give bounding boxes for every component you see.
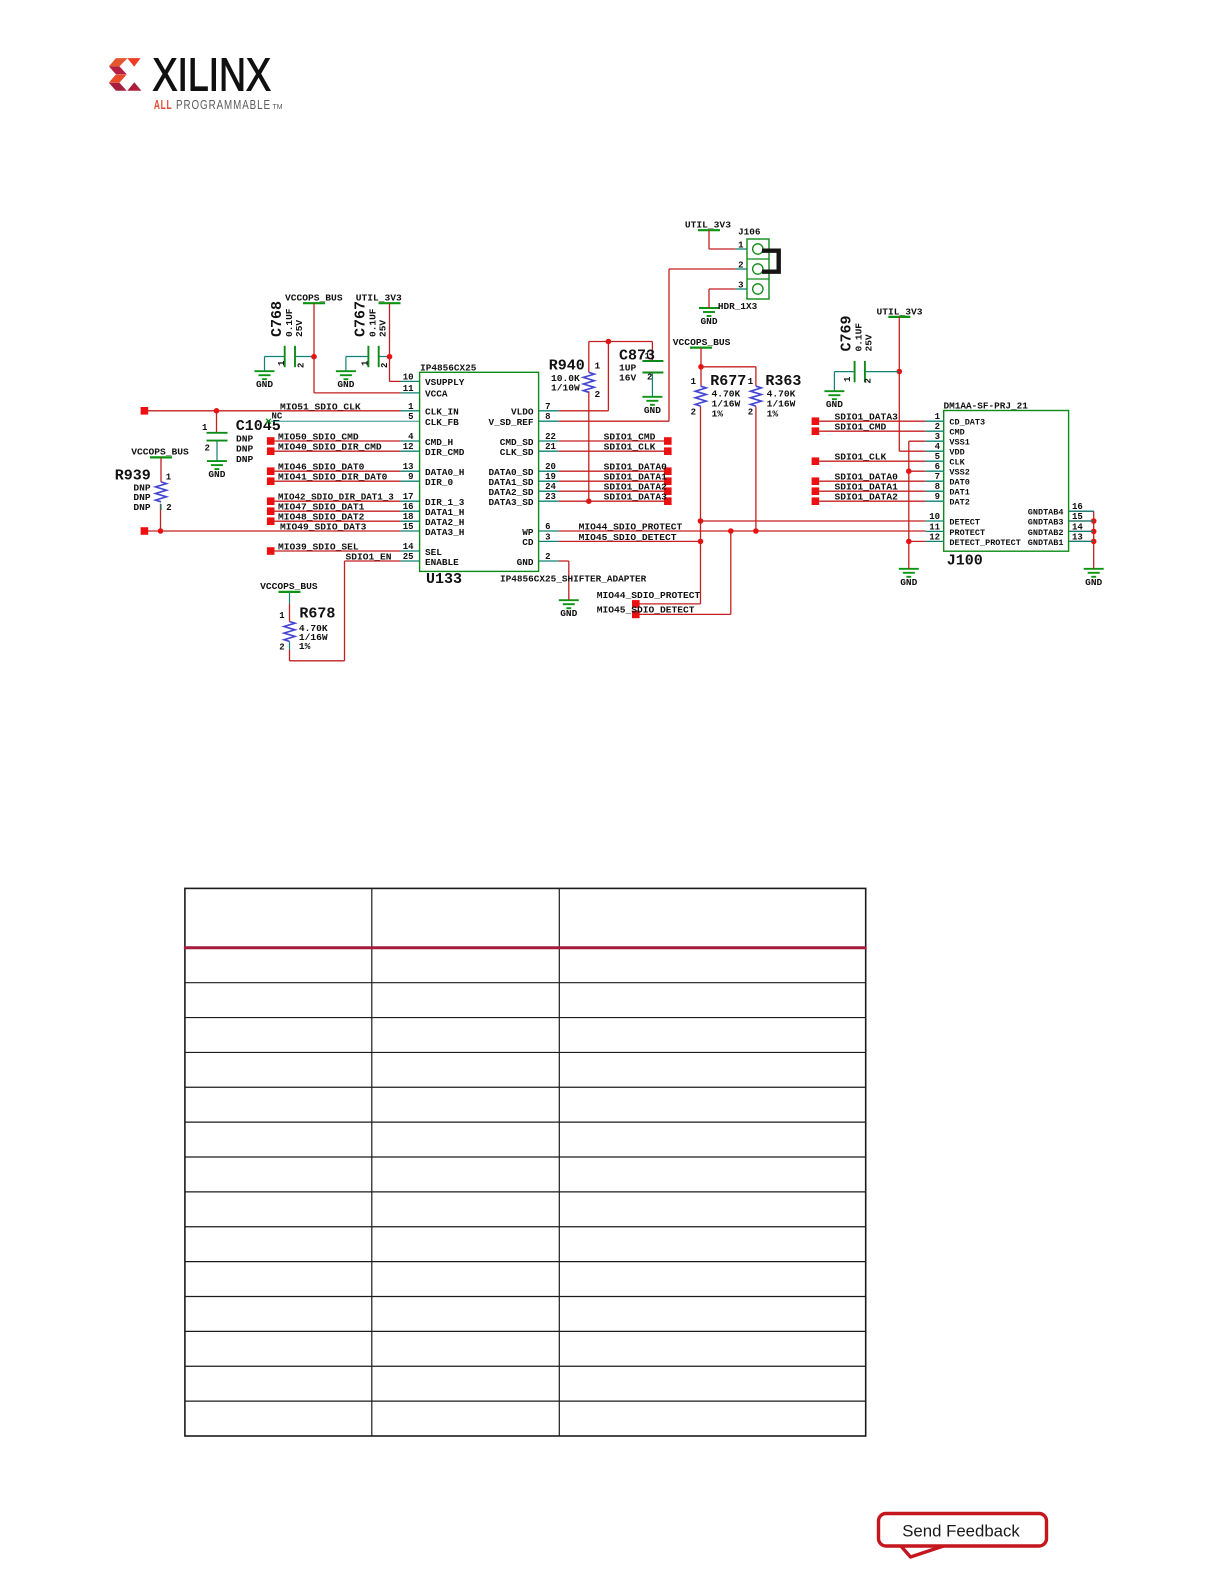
svg-text:13: 13 (403, 462, 414, 472)
svg-text:GND: GND (337, 379, 354, 390)
svg-text:25: 25 (403, 552, 414, 562)
svg-text:GND: GND (256, 379, 273, 390)
wire C873 to ground (651, 373, 653, 397)
svg-text:1: 1 (748, 377, 754, 387)
svg-text:J100: J100 (947, 553, 983, 570)
svg-text:GND: GND (644, 405, 661, 416)
svg-text:1: 1 (166, 472, 172, 482)
svg-text:15: 15 (403, 522, 414, 532)
svg-text:1: 1 (202, 423, 208, 433)
svg-text:1: 1 (645, 351, 651, 361)
wire net SDIO1_DATA1 (U133 side) (559, 472, 672, 485)
Send Feedback button (879, 1514, 1047, 1558)
wire R363 pulldown leg (755, 367, 757, 531)
wire net MIO41_SDIO_DIR_DAT0 (267, 472, 401, 485)
svg-text:25V: 25V (864, 334, 875, 351)
svg-text:GND: GND (560, 608, 577, 619)
ground (C768) (255, 371, 275, 390)
table (empty 3-column) (184, 888, 867, 1436)
svg-text:1%: 1% (767, 409, 779, 420)
svg-text:5: 5 (935, 452, 940, 462)
svg-text:CLK_FB: CLK_FB (425, 417, 459, 428)
resistor R677 (691, 373, 747, 420)
svg-text:12: 12 (929, 532, 940, 542)
svg-text:GNDTAB3: GNDTAB3 (1028, 518, 1064, 528)
wire net SDIO1_CMD (U133 side) (559, 432, 672, 445)
wire net VLDO / R940 / C873 (559, 339, 653, 411)
svg-text:DETECT: DETECT (949, 518, 980, 528)
svg-text:J106: J106 (738, 227, 761, 238)
svg-text:UTIL_3V3: UTIL_3V3 (685, 219, 731, 230)
svg-text:DIR_0: DIR_0 (425, 477, 454, 488)
svg-text:16V: 16V (619, 373, 637, 384)
svg-text:6: 6 (545, 522, 550, 532)
svg-text:VSUPPLY: VSUPPLY (425, 377, 465, 388)
connector J106 HDR_1X3 jumper header (718, 227, 779, 312)
svg-text:MIO45_SDIO_DETECT: MIO45_SDIO_DETECT (597, 605, 695, 616)
svg-text:R678: R678 (299, 606, 335, 623)
ground (U133) (559, 600, 579, 619)
connector J100 DM1AA-SF-PRJ_21 SD card socket (926, 401, 1094, 570)
svg-text:IP4856CX25_SHIFTER_ADAPTER: IP4856CX25_SHIFTER_ADAPTER (500, 574, 647, 585)
svg-text:GND: GND (1085, 577, 1102, 588)
svg-text:CLK_SD: CLK_SD (500, 447, 534, 458)
power symbol VCCOPS_BUS (R939) (131, 447, 189, 458)
svg-text:6: 6 (935, 462, 940, 472)
svg-text:2: 2 (691, 408, 696, 418)
svg-text:GNDTAB4: GNDTAB4 (1028, 508, 1064, 518)
ground (C769) (824, 391, 844, 410)
svg-text:2: 2 (595, 389, 601, 400)
ground (C873) (642, 397, 662, 416)
resistor R363 (748, 373, 802, 420)
svg-text:22: 22 (545, 432, 556, 442)
svg-text:VDD: VDD (949, 448, 964, 458)
capacitor C768 (269, 301, 307, 368)
svg-text:U133: U133 (426, 571, 462, 588)
svg-text:23: 23 (545, 492, 556, 502)
svg-text:VCCOPS_BUS: VCCOPS_BUS (131, 447, 189, 458)
svg-text:MIO45_SDIO_DETECT: MIO45_SDIO_DETECT (579, 532, 677, 543)
svg-text:VSS1: VSS1 (949, 438, 969, 448)
svg-text:MIO44_SDIO_PROTECT: MIO44_SDIO_PROTECT (597, 590, 701, 601)
wire net MIO39_SDIO_SEL (267, 542, 401, 555)
power symbol VCCOPS_BUS (R678) (260, 581, 318, 592)
svg-text:GND: GND (826, 399, 843, 410)
svg-text:1: 1 (361, 360, 371, 366)
svg-text:20: 20 (545, 462, 556, 472)
svg-text:1%: 1% (712, 409, 724, 420)
wire net UTIL_3V3 to C769/VDD (834, 317, 925, 451)
svg-text:SDIO1_CLK: SDIO1_CLK (835, 452, 887, 463)
wire net MIO45_SDIO_DETECT (CD) (559, 532, 704, 544)
wire net SDIO1_DATA3 (U133 side) (559, 492, 672, 505)
svg-text:CMD: CMD (949, 428, 964, 438)
svg-text:VCCA: VCCA (425, 389, 448, 400)
svg-text:2: 2 (380, 363, 390, 368)
svg-text:VCCOPS_BUS: VCCOPS_BUS (285, 293, 343, 304)
svg-text:SDIO1_DATA3: SDIO1_DATA3 (604, 492, 668, 503)
ground (J106) (699, 308, 719, 327)
svg-text:CD_DAT3: CD_DAT3 (949, 418, 985, 428)
svg-text:2: 2 (935, 422, 940, 432)
svg-text:8: 8 (935, 482, 940, 492)
svg-text:14: 14 (1072, 522, 1083, 532)
wire net SDIO1_EN (R678 pullup) (290, 552, 401, 661)
svg-text:4: 4 (408, 432, 414, 442)
wire net DETECT (to J100 pin 10) (698, 518, 926, 524)
svg-text:SDIO1_EN: SDIO1_EN (346, 552, 392, 563)
svg-text:2: 2 (647, 373, 652, 383)
ground (C1045) (207, 461, 227, 480)
svg-text:13: 13 (1072, 532, 1083, 542)
wire net SDIO1_CLK (U133 side) (559, 442, 672, 455)
svg-text:MIO40_SDIO_DIR_CMD: MIO40_SDIO_DIR_CMD (278, 442, 382, 453)
capacitor C769 (839, 315, 875, 383)
svg-text:3: 3 (545, 532, 550, 542)
svg-text:IP4856CX25: IP4856CX25 (420, 362, 477, 373)
svg-text:1: 1 (935, 412, 941, 422)
svg-text:UTIL_3V3: UTIL_3V3 (877, 306, 923, 317)
svg-text:PROTECT: PROTECT (949, 528, 985, 538)
svg-text:GNDTAB2: GNDTAB2 (1028, 528, 1064, 538)
svg-text:VLDO: VLDO (511, 407, 534, 418)
wire net MIO47_SDIO_DAT1 (267, 502, 401, 515)
svg-text:2: 2 (545, 552, 550, 562)
power symbol VCCOPS_BUS (C768) (285, 293, 343, 304)
capacitor C1045 (202, 418, 281, 465)
wire net MIO46_SDIO_DAT0 (267, 462, 401, 475)
ground (J100 VSS) (899, 569, 919, 588)
wire net R677 pullup / detect vertical (632, 348, 756, 608)
svg-text:R940: R940 (549, 358, 585, 375)
power symbol UTIL_3V3 (C769) (877, 306, 923, 317)
svg-text:GND: GND (208, 469, 225, 480)
svg-text:12: 12 (403, 442, 414, 452)
svg-text:VCCOPS_BUS: VCCOPS_BUS (260, 581, 318, 592)
svg-text:2: 2 (864, 378, 874, 383)
svg-text:1: 1 (843, 376, 853, 382)
svg-text:2: 2 (297, 363, 307, 368)
svg-text:10: 10 (929, 512, 940, 522)
svg-text:MIO49_SDIO_DAT3: MIO49_SDIO_DAT3 (280, 522, 367, 533)
svg-text:3: 3 (935, 432, 940, 442)
wire net MIO45_SDIO_DETECT (bottom) via x=730.8 (597, 531, 731, 618)
svg-text:NC: NC (272, 412, 283, 422)
svg-text:16: 16 (1072, 502, 1083, 512)
svg-text:3: 3 (738, 280, 743, 290)
svg-text:DAT1: DAT1 (949, 488, 969, 498)
svg-text:ALL: ALL (154, 98, 173, 112)
svg-text:XILINX: XILINX (153, 49, 272, 101)
Xilinx logo (109, 49, 283, 112)
svg-text:1: 1 (738, 240, 744, 250)
wire U133 GND to ground (559, 561, 569, 600)
svg-text:2: 2 (748, 408, 753, 418)
svg-text:1/10W: 1/10W (551, 382, 580, 393)
svg-text:24: 24 (545, 482, 556, 492)
svg-text:17: 17 (403, 492, 414, 502)
capacitor C873 (619, 347, 663, 383)
wire net V_SD_REF to J106 pin 2 (559, 269, 736, 421)
svg-text:11: 11 (929, 522, 940, 532)
svg-text:GNDTAB1: GNDTAB1 (1028, 538, 1064, 548)
svg-text:VSS2: VSS2 (949, 468, 969, 478)
svg-text:DM1AA-SF-PRJ_21: DM1AA-SF-PRJ_21 (944, 401, 1029, 412)
wire net MIO51_SDIO_CLK (141, 401, 401, 433)
svg-text:8: 8 (545, 412, 550, 422)
svg-text:25V: 25V (378, 320, 389, 337)
IC U133 IP4856CX25 level shifter (266, 362, 647, 588)
svg-text:10: 10 (403, 372, 414, 382)
svg-text:4: 4 (935, 442, 941, 452)
power symbol UTIL_3V3 (J106) (685, 219, 731, 230)
svg-text:1: 1 (691, 377, 697, 387)
svg-text:2: 2 (279, 642, 284, 652)
svg-text:DNP: DNP (236, 454, 254, 465)
capacitor C767 (353, 301, 391, 368)
svg-text:DETECT_PROTECT: DETECT_PROTECT (949, 538, 1020, 548)
wire net MIO44_SDIO_PROTECT (WP to J100 PROTECT) (559, 522, 926, 534)
power symbol UTIL_3V3 (C767) (356, 293, 402, 304)
svg-text:DNP: DNP (133, 502, 151, 513)
svg-text:SDIO1_DATA2: SDIO1_DATA2 (835, 492, 899, 503)
svg-text:1: 1 (408, 402, 414, 412)
resistor R939 (115, 467, 172, 513)
svg-text:GND: GND (517, 557, 534, 568)
svg-text:1: 1 (279, 611, 285, 621)
svg-text:DNP: DNP (236, 433, 254, 444)
svg-text:DAT2: DAT2 (949, 498, 969, 508)
svg-text:TM: TM (273, 104, 283, 111)
svg-text:7: 7 (545, 402, 550, 412)
wire net SDIO1_DATA0 (J100 side) (812, 472, 926, 485)
svg-text:11: 11 (403, 384, 414, 394)
resistor R678 (279, 592, 335, 652)
wire net UTIL_3V3 to C767/VSUPPLY (346, 303, 401, 381)
wire net VSS1/VSS2/DETECT_PROTECT to ground (906, 441, 926, 569)
svg-text:21: 21 (545, 442, 556, 452)
svg-text:18: 18 (403, 512, 414, 522)
svg-text:V_SD_REF: V_SD_REF (488, 417, 533, 428)
wire R939 pullup (160, 457, 162, 482)
svg-text:1%: 1% (299, 641, 311, 652)
svg-text:VCCOPS_BUS: VCCOPS_BUS (673, 337, 731, 348)
svg-text:5: 5 (408, 412, 413, 422)
svg-text:1: 1 (595, 360, 601, 371)
svg-text:CD: CD (522, 537, 534, 548)
wire net MIO48_SDIO_DAT2 (267, 512, 401, 525)
svg-text:15: 15 (1072, 512, 1083, 522)
svg-text:GND: GND (700, 316, 717, 327)
svg-text:19: 19 (545, 472, 556, 482)
wire net SDIO1_DATA1 (J100 side) (812, 482, 926, 495)
wire net MIO40_SDIO_DIR_CMD (267, 442, 401, 455)
svg-text:MIO51_SDIO_CLK: MIO51_SDIO_CLK (280, 401, 361, 412)
svg-text:Send Feedback: Send Feedback (902, 1522, 1020, 1541)
svg-text:14: 14 (403, 542, 414, 552)
wire net SDIO1_CMD (J100 side) (812, 422, 926, 435)
wire net SDIO1_DATA0 (U133 side) (559, 462, 672, 475)
wire net SDIO1_CLK (J100 side) (812, 452, 926, 465)
svg-text:WP: WP (522, 527, 534, 538)
svg-text:2: 2 (738, 260, 743, 270)
svg-text:1: 1 (277, 360, 287, 366)
wire R940 to SDIO1_DATA3 (586, 391, 592, 504)
svg-text:CLK: CLK (949, 458, 965, 468)
svg-text:SDIO1_CMD: SDIO1_CMD (835, 422, 887, 433)
svg-text:GND: GND (900, 577, 917, 588)
wire net SDIO1_DATA2 (J100 side) (812, 492, 926, 505)
svg-text:9: 9 (408, 472, 413, 482)
wire net MIO49_SDIO_DAT3 (141, 504, 401, 535)
svg-text:MIO41_SDIO_DIR_DAT0: MIO41_SDIO_DIR_DAT0 (278, 472, 388, 483)
svg-text:PROGRAMMABLE: PROGRAMMABLE (176, 98, 271, 112)
svg-text:2: 2 (166, 503, 171, 513)
svg-text:9: 9 (935, 492, 940, 502)
svg-text:25V: 25V (294, 320, 305, 337)
wire net SDIO1_DATA2 (U133 side) (559, 482, 672, 495)
svg-text:ENABLE: ENABLE (425, 557, 459, 568)
ground (J100 GNDTAB) (1084, 569, 1104, 588)
wire net SDIO1_DATA3 (J100 side) (812, 412, 926, 425)
svg-text:DAT0: DAT0 (949, 478, 969, 488)
svg-text:DATA3_H: DATA3_H (425, 527, 464, 538)
power symbol VCCOPS_BUS (R677) (673, 337, 731, 348)
wire J106 pin 1 to UTIL_3V3 (709, 230, 735, 249)
wire net VCCOPS_BUS to C768/VCCA (265, 303, 401, 393)
wire net MIO42_SDIO_DIR_DAT1_3 (267, 492, 401, 505)
resistor R940 (549, 358, 601, 401)
wire net GNDTAB to ground (1069, 511, 1097, 569)
svg-text:HDR_1X3: HDR_1X3 (718, 301, 758, 312)
svg-text:DATA3_SD: DATA3_SD (488, 497, 533, 508)
svg-text:SDIO1_CLK: SDIO1_CLK (604, 442, 656, 453)
wire net MIO50_SDIO_CMD (267, 432, 401, 445)
svg-text:CLK_IN: CLK_IN (425, 407, 459, 418)
label MIO44_SDIO_PROTECT (bottom) (597, 590, 701, 601)
svg-text:16: 16 (403, 502, 414, 512)
svg-text:DIR_CMD: DIR_CMD (425, 447, 465, 458)
ground (C767) (336, 371, 356, 390)
svg-text:7: 7 (935, 472, 940, 482)
svg-text:2: 2 (205, 443, 210, 453)
wire J106 pin 3 to ground (709, 289, 735, 308)
